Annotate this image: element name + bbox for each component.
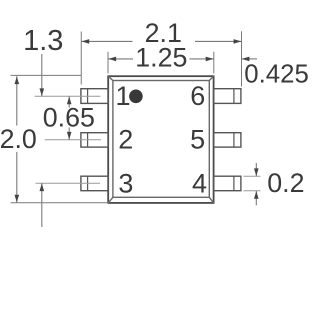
pin 3 lead — [81, 176, 108, 191]
pin 2 plating line — [87, 133, 89, 147]
pin 3 plating line — [87, 176, 89, 191]
pin 5 plating line — [233, 133, 235, 147]
pin 1 plating line — [87, 89, 89, 104]
bevel bottom-right — [209, 197, 213, 203]
svg-text:1: 1 — [115, 81, 130, 111]
dimension 2.0 top arrow — [15, 77, 20, 85]
dimension 2.1 right arrow — [234, 39, 242, 44]
dimension 1.3 lower line — [41, 183, 43, 227]
extension line body bottom (for 2.0) — [11, 202, 109, 204]
package body inner outline — [113, 81, 209, 198]
bevel top-left — [108, 76, 113, 80]
svg-text:3: 3 — [118, 169, 133, 199]
extension line body left (for 1.25) — [107, 52, 109, 74]
pin 5 lead — [214, 133, 241, 147]
dimension 0.65 bottom arrow — [67, 132, 72, 140]
dimension 2.0 line — [16, 76, 18, 125]
svg-text:6: 6 — [190, 81, 205, 111]
pin 4 plating line — [233, 176, 235, 191]
dimension 1.3 upper arrow — [40, 88, 45, 96]
extension line left pin tips (for 2.1) — [80, 32, 82, 85]
pin 4 bottom edge extension — [244, 190, 261, 192]
pin 6 lead — [214, 89, 241, 104]
dimension 0.2 top arrow line — [255, 163, 257, 176]
pin 1 centerline — [35, 95, 101, 97]
dimension 0.2 top arrow — [254, 168, 259, 176]
extension line right pin tips (for 2.1 / 0.425) — [241, 31, 243, 86]
bevel top-right — [209, 76, 213, 80]
dimension 0.425 arrow tail — [242, 58, 258, 60]
svg-text:2: 2 — [118, 125, 133, 155]
pin 2 lead — [81, 133, 108, 147]
dimension 2.1 line — [81, 40, 132, 42]
svg-text:0.65: 0.65 — [43, 102, 95, 132]
dimension 1.25 right arrow — [206, 57, 214, 62]
svg-text:2.0: 2.0 — [0, 124, 37, 154]
dimension 1.3 lower arrow — [40, 184, 45, 192]
pin 1 index dot — [129, 90, 143, 104]
dimension 1.25 line — [108, 58, 133, 60]
pin 1 lead — [81, 89, 108, 104]
svg-text:1.3: 1.3 — [23, 25, 63, 57]
svg-text:5: 5 — [190, 125, 205, 155]
svg-text:1.25: 1.25 — [135, 42, 187, 72]
dimension 0.2 bottom arrow — [254, 191, 259, 199]
dimension 0.425 arrow — [242, 57, 250, 62]
bevel bottom-left — [108, 197, 113, 203]
dimension 2.1 left arrow — [82, 39, 90, 44]
svg-text:0.425: 0.425 — [244, 61, 309, 89]
dimension 1.3 upper line — [41, 54, 43, 96]
pin 2 centerline — [45, 139, 101, 141]
pin 4 lead — [214, 176, 241, 191]
extension line body top (for 2.0) — [11, 74, 82, 76]
svg-text:0.2: 0.2 — [267, 168, 304, 198]
extension line body right (for 1.25 / 0.425) — [213, 52, 215, 74]
pin 3 centerline — [36, 182, 101, 184]
dimension 0.65 line — [68, 96, 70, 107]
pin 6 plating line — [233, 89, 235, 104]
dimension 2.0 bottom arrow — [15, 195, 20, 203]
dimension 1.25 left arrow — [109, 57, 117, 62]
package body outer outline — [108, 76, 213, 203]
dimension 0.65 top arrow — [67, 97, 72, 105]
dimension 0.2 bottom arrow line — [255, 191, 257, 206]
pin 4 top edge extension — [244, 175, 261, 177]
svg-text:4: 4 — [192, 168, 207, 198]
